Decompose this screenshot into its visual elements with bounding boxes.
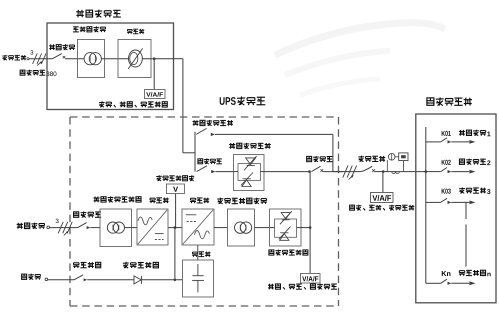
wire feeder row K01 from bus [426, 141, 441, 143]
label 旁路输入 [2, 55, 26, 60]
label 馈线分路2 [459, 159, 490, 165]
switch DC arrow [84, 278, 88, 281]
wire inverter to output transformer [214, 227, 228, 229]
wire feeder row K02 out [451, 171, 469, 173]
switch bypass blade [197, 166, 207, 172]
thyristor pair bypass static switch [241, 156, 257, 187]
enclosure UPS main cabinet dashed border [70, 117, 339, 306]
wire to input isolation transformer [90, 227, 100, 229]
node bypass input terminal [27, 58, 29, 60]
label K03 [442, 189, 451, 194]
switch maintenance bypass arrow [211, 133, 215, 136]
label K01 [442, 131, 451, 136]
label 直流开关 [73, 262, 101, 268]
label phase count 3 [30, 50, 33, 54]
label cabinet title 输出馈线柜 [427, 97, 472, 105]
continuation line below K03 [465, 202, 467, 266]
switch K02 blade [441, 168, 447, 172]
label 两相两线380 [20, 70, 56, 76]
switch Kn arrow [448, 282, 452, 285]
wire bypass switch to static switch [215, 171, 233, 173]
label 输出开关 (first) [307, 156, 333, 162]
label 直流屏 [22, 274, 41, 280]
component box rectifier [137, 209, 168, 245]
node D DC bus junction dot [174, 226, 177, 229]
wire maintenance bypass drop [332, 134, 334, 171]
label 逆止二极管 [123, 262, 159, 268]
wire feeder row K01 out [451, 141, 469, 143]
switch K03 arrow [448, 201, 452, 204]
feeder K03 output arrow [469, 201, 475, 205]
wire DC switch to diode [87, 279, 134, 281]
switch rectifier input blade [78, 223, 87, 228]
phase marks bypass input (3 slashes) [33, 53, 46, 65]
meter box V/A/F output [371, 193, 394, 203]
wire switch to isolation transformer [65, 58, 84, 60]
wire bypass feed riser [194, 132, 196, 172]
thyristor pair inverter static switch [279, 211, 292, 240]
wire to metering junction [375, 171, 383, 173]
wire main input [50, 227, 78, 229]
label 滤波器 [192, 251, 210, 256]
component box inverter static switch outer [270, 209, 302, 246]
phase marks main input (3 slashes) [58, 222, 72, 236]
switch QS1 输入开关 blade [53, 54, 62, 59]
node main input terminal [47, 226, 50, 229]
label 旁路开关 [198, 158, 222, 164]
node A junction dot after stabilizer [153, 57, 156, 60]
wire inverter to filter (vertical) [197, 245, 199, 260]
label 馈线分路n [459, 270, 491, 276]
wire feeder row Kn from bus [426, 282, 441, 284]
phase marks output line (3 slashes) [343, 166, 357, 180]
label Kn [442, 271, 451, 276]
wire diode to DC bus junction [141, 279, 182, 281]
component box input isolation transformer [100, 209, 132, 247]
component box inverter [182, 209, 214, 245]
wire output to feeder cabinet [383, 171, 426, 173]
node DC panel terminal [45, 278, 48, 281]
switch rectifier input arrow [87, 226, 91, 229]
meter box V/A/F bypass [145, 90, 166, 99]
bypass static switch inner loop [234, 164, 265, 181]
wire feeder row K03 out [451, 201, 469, 203]
wire DC panel to switch [47, 279, 74, 281]
node B junction inverter/bypass output [308, 170, 311, 173]
feeder K02 output arrow [469, 170, 475, 174]
label cabinet title UPS主机柜 [220, 96, 266, 105]
node C metering junction dot [382, 170, 385, 173]
label 整流器 [150, 198, 169, 204]
label 馈线分路1 [459, 130, 491, 136]
meter box V bus voltage [167, 184, 185, 194]
wire feeder row Kn out [451, 282, 469, 284]
label 逆变器 [190, 198, 209, 204]
label 隔离变压器 [73, 26, 106, 32]
component box output isolation transformer [228, 209, 255, 246]
label 稳压器 [127, 29, 144, 34]
wire T1 to voltage stabilizer [101, 58, 128, 60]
switch maintenance bypass blade [196, 128, 206, 134]
wire bypass input to switch [29, 58, 52, 60]
feeder Kn output arrow [469, 281, 475, 285]
wire static switch output [264, 171, 310, 173]
wire rectifier to inverter (DC bus) [168, 227, 182, 229]
component box voltage stabilizer [118, 40, 151, 78]
switch output-2 contact mark [372, 169, 375, 172]
stabilizer symbol (circle with slash) [128, 48, 142, 69]
enclosure output feeder cabinet box [416, 114, 496, 303]
bus feeder vertical line [425, 127, 427, 283]
switch output-1 contact mark [321, 169, 324, 172]
wire feeder row K02 from bus [426, 171, 441, 173]
inverter static switch inner loop [270, 219, 302, 237]
node E inverter output junction dot [309, 226, 312, 229]
meter box V/A/F inverter [301, 274, 321, 284]
instrument CT + meters bridge [387, 153, 408, 174]
node G bus junction dot [425, 170, 428, 173]
label 输入开关 [49, 44, 75, 50]
wire junction to V/A/F meter (vertical) [153, 59, 155, 90]
enclosure bypass-stabilizer cabinet box [47, 23, 174, 110]
label 逆变静态开关 [269, 250, 308, 256]
switch output-1 blade [311, 166, 320, 171]
switch QS1 contact mark [63, 56, 66, 59]
label phase count 3 (main) [56, 219, 59, 223]
component box bypass static switch outer [234, 155, 265, 191]
label 输入隔离变压器 [93, 196, 141, 202]
wire bypass feed drop (vertical) [182, 59, 184, 153]
wire T2 to rectifier [125, 227, 138, 229]
component box isolation transformer T1 [78, 40, 105, 78]
wire maintenance join segment [333, 171, 343, 173]
wire V meter to DC bus [175, 194, 177, 228]
transformer T1 winding circles [84, 53, 101, 65]
switch K01 blade [441, 138, 447, 142]
wire T3 to inverter static switch [255, 227, 270, 229]
node F DC line junction dot [174, 279, 177, 282]
wire inverter output riser [309, 172, 311, 274]
label 电压、电流、频率显示 (inverter) [268, 284, 337, 290]
switch K02 arrow [448, 170, 452, 173]
switch DC blade [74, 275, 83, 280]
wire inverter SSW output [301, 227, 310, 229]
feeder K01 output arrow [469, 140, 475, 144]
wire feeder row K03 from bus [426, 201, 441, 203]
wire DC bus drop to battery line [174, 228, 176, 280]
label cabinet title 旁路稳压柜 [76, 10, 121, 18]
label 电压、电流、频率显示 (bypass) [99, 101, 167, 107]
transformer T2 winding circles [107, 222, 124, 233]
wire stabilizer output [142, 58, 173, 60]
wire output line segment [323, 171, 361, 173]
label 主电输入 [17, 223, 45, 229]
label 输出开关 (second) [358, 156, 385, 162]
label 馈线分路3 [459, 187, 490, 194]
rectifier symbol (diagonal, sine, bars) [138, 210, 167, 244]
switch bypass arrow [211, 170, 215, 173]
wire junction to V/A/F output meter [382, 172, 384, 193]
switch K03 blade [441, 198, 447, 202]
wire bypass feed jog [183, 152, 195, 154]
label 输出隔离变压器 [217, 198, 267, 204]
switch K01 arrow [448, 140, 452, 143]
label 维修旁路开关 [193, 120, 234, 126]
label K02 [442, 160, 451, 165]
component box filter [183, 260, 214, 297]
label 总线电压显示 [156, 175, 194, 181]
wire maintenance bypass line [215, 133, 333, 135]
label 电压、电流、频率显示 (output) [350, 205, 415, 211]
wire bypass output exit [174, 58, 183, 60]
label 旁路静态开关 [229, 143, 271, 149]
inverter symbol (diagonal, bars, sine) [183, 210, 213, 244]
label 整流开关 [74, 211, 102, 217]
switch output-2 blade [361, 166, 372, 171]
switch Kn blade [441, 279, 447, 283]
diode blocking (triangle+bar) [134, 276, 141, 284]
transformer T3 winding circles [235, 222, 252, 233]
capacitor filter symbol [192, 264, 204, 292]
